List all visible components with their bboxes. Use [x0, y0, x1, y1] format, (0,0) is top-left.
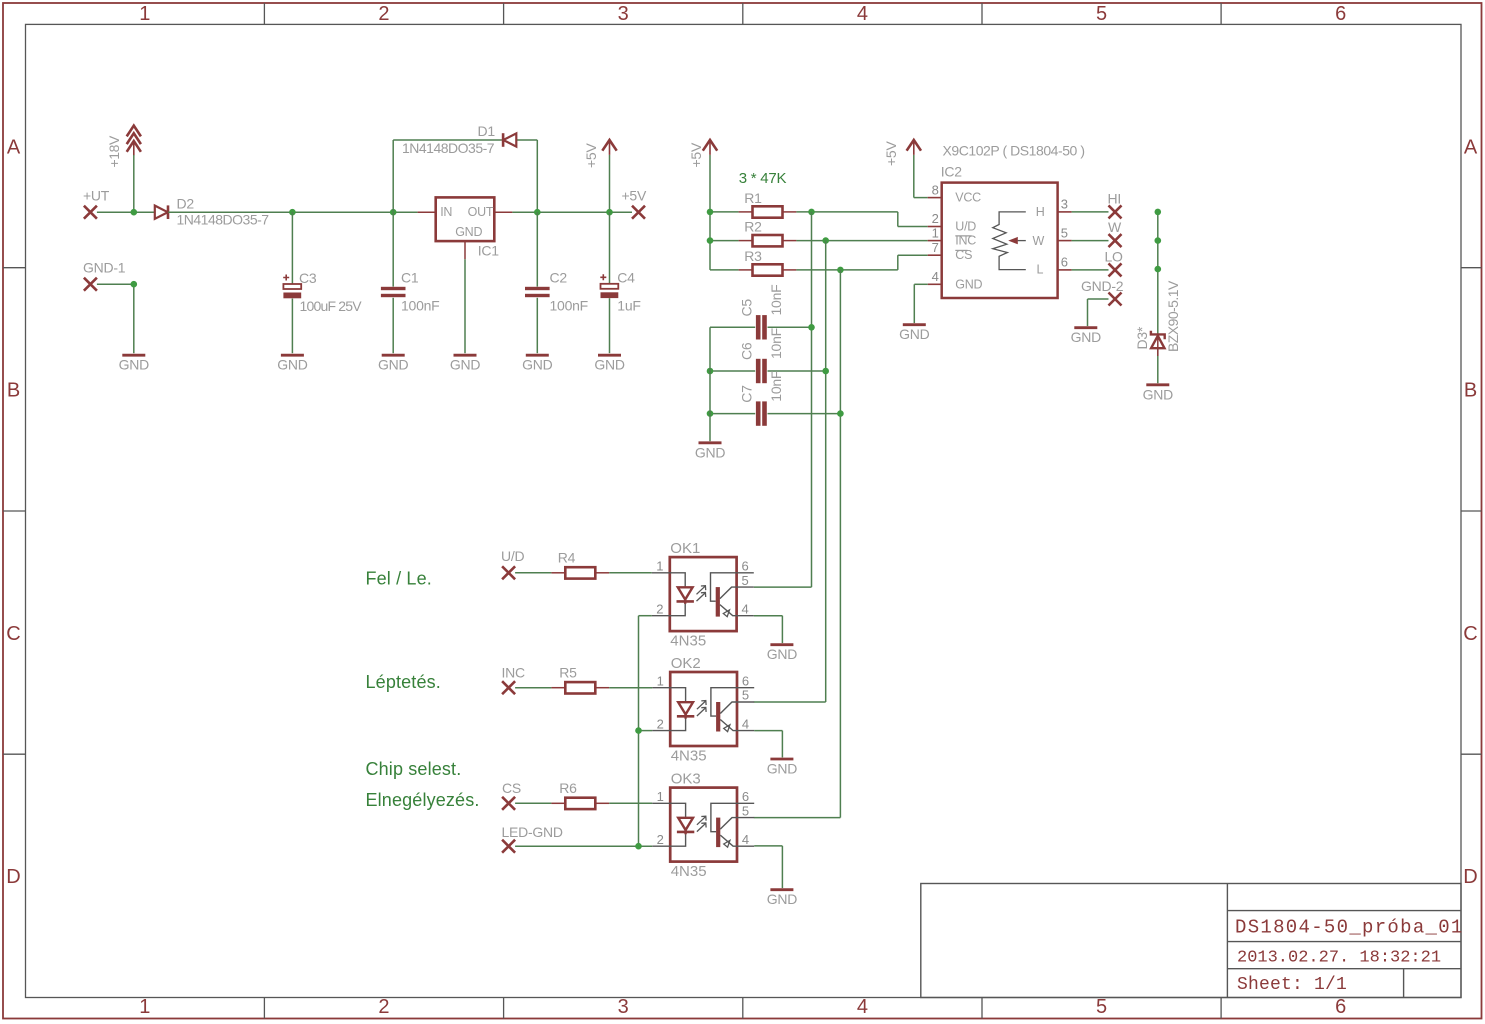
capacitor C3 100uF 25V — [283, 270, 362, 314]
svg-text:Sheet: 1/1: Sheet: 1/1 — [1237, 975, 1347, 995]
svg-text:GND: GND — [119, 357, 150, 373]
svg-text:X9C102P ( DS1804-50 ): X9C102P ( DS1804-50 ) — [943, 143, 1085, 159]
value label 3 * 47K — [739, 170, 787, 187]
junction rail L — [1155, 266, 1162, 273]
wire +18V drop — [133, 155, 135, 212]
svg-text:1: 1 — [932, 225, 939, 240]
wire C3 leads — [291, 212, 293, 353]
wire OK1 pin4 to ground — [754, 616, 783, 643]
diode D2 1N4148DO35-7 — [155, 196, 269, 228]
wire INC to R5 — [515, 687, 551, 689]
svg-text:C: C — [6, 623, 20, 645]
svg-text:GND: GND — [767, 891, 798, 907]
title block date — [1237, 949, 1441, 968]
svg-text:C6: C6 — [739, 342, 755, 360]
svg-text:OK2: OK2 — [671, 655, 701, 672]
svg-text:IN: IN — [440, 205, 452, 219]
capacitor C1 100nF — [381, 270, 440, 314]
ground OK2 — [767, 759, 798, 777]
svg-text:8: 8 — [932, 182, 939, 197]
label Elnegelyezes. — [366, 790, 480, 810]
capacitor C2 100nF — [525, 270, 588, 314]
svg-text:D3*: D3* — [1134, 326, 1150, 349]
capacitor C4 1uF — [600, 270, 640, 314]
svg-text:IC2: IC2 — [941, 164, 963, 180]
svg-text:4N35: 4N35 — [670, 632, 706, 649]
svg-text:GND: GND — [594, 357, 625, 373]
junction R2 right — [822, 237, 829, 244]
wire GND-2 — [1088, 299, 1109, 326]
svg-text:L: L — [1037, 263, 1044, 277]
svg-text:OK1: OK1 — [670, 540, 700, 557]
svg-text:10nF: 10nF — [768, 328, 784, 359]
wire IC2 pin4 GND — [914, 284, 927, 323]
zener D3 BZX90-5.1V — [1134, 280, 1181, 356]
svg-text:4: 4 — [932, 269, 939, 284]
svg-text:C2: C2 — [550, 270, 568, 286]
wire CS column — [754, 270, 841, 818]
wire R2 to IC2 pin1 — [796, 240, 927, 242]
ground GND-2 — [1071, 328, 1102, 346]
resistor R5 — [551, 665, 609, 694]
svg-text:D1: D1 — [478, 123, 496, 139]
svg-text:6: 6 — [742, 789, 749, 804]
svg-text:1: 1 — [657, 673, 664, 688]
svg-text:CS: CS — [502, 780, 521, 796]
wire OK1 pin2 down — [639, 616, 652, 847]
regulator IC1 — [418, 197, 513, 259]
svg-text:GND: GND — [450, 357, 481, 373]
wire R6 to OK3 — [609, 802, 652, 804]
wire R1 to IC2 pin2 — [796, 212, 927, 227]
wire R3 to IC2 pin7 — [796, 255, 927, 270]
wire C1 leads — [392, 212, 394, 353]
ground C1 — [378, 355, 409, 373]
svg-text:1: 1 — [657, 789, 664, 804]
svg-text:C5: C5 — [739, 299, 755, 317]
svg-text:R3: R3 — [744, 248, 762, 264]
svg-text:A: A — [1464, 136, 1478, 158]
optocoupler OK3 4N35 — [652, 771, 754, 880]
svg-text:GND: GND — [522, 357, 553, 373]
wire LED-GND to OK3 pin2 — [515, 845, 652, 847]
svg-text:LO: LO — [1105, 248, 1124, 264]
ground IC1 — [450, 355, 481, 373]
svg-text:100uF 25V: 100uF 25V — [300, 298, 363, 314]
svg-text:6: 6 — [1335, 996, 1346, 1018]
svg-text:GND: GND — [1071, 329, 1102, 345]
wire C7 row — [710, 413, 840, 415]
wire IC1 GND pin — [464, 259, 466, 353]
svg-text:100nF: 100nF — [401, 298, 439, 314]
svg-text:2013.02.27. 18:32:21: 2013.02.27. 18:32:21 — [1237, 949, 1441, 968]
svg-text:GND: GND — [378, 357, 409, 373]
wire GND-1 — [97, 284, 134, 353]
svg-text:+5V: +5V — [688, 142, 704, 167]
ground D3 — [1143, 385, 1174, 403]
junction C3 tap — [289, 209, 296, 216]
svg-text:GND-2: GND-2 — [1081, 278, 1124, 294]
ground C2 — [522, 355, 553, 373]
ground OK3 — [767, 890, 798, 908]
svg-text:W: W — [1108, 219, 1122, 235]
junction rail W — [1155, 237, 1162, 244]
resistor R2 — [739, 219, 797, 247]
wire R5 to OK2 — [609, 687, 652, 689]
wire IC2 pin6 L — [1072, 269, 1109, 271]
supply symbol +18V — [106, 126, 141, 168]
svg-text:1: 1 — [139, 3, 150, 25]
svg-text:+5V: +5V — [583, 143, 599, 168]
svg-text:4N35: 4N35 — [671, 747, 707, 764]
svg-text:Chip selest.: Chip selest. — [366, 759, 462, 779]
title block box — [921, 884, 1461, 998]
resistor R4 — [551, 550, 609, 579]
supply symbol +5V at R1-R3 — [688, 140, 717, 168]
wire C5 row — [710, 326, 812, 328]
svg-text:5: 5 — [742, 803, 749, 818]
label Leptetes — [366, 672, 441, 692]
node LO terminal — [1105, 248, 1124, 276]
svg-text:Elnegélyezés.: Elnegélyezés. — [366, 790, 480, 810]
svg-text:100nF: 100nF — [550, 298, 588, 314]
svg-text:6: 6 — [742, 559, 749, 574]
svg-text:C: C — [1463, 623, 1477, 645]
svg-text:IC1: IC1 — [478, 242, 500, 258]
svg-text:5: 5 — [1096, 996, 1107, 1018]
supply symbol +5V at C4 — [583, 140, 617, 168]
wire R4 to OK1 — [609, 572, 652, 574]
junction LED-GND — [635, 843, 642, 850]
node +UT terminal — [83, 188, 110, 219]
svg-text:5: 5 — [742, 573, 749, 588]
wire C6 row — [710, 370, 826, 372]
wire C2 leads — [536, 212, 538, 353]
svg-text:HI: HI — [1108, 190, 1122, 206]
svg-text:GND: GND — [899, 326, 930, 342]
svg-text:OUT: OUT — [468, 205, 494, 219]
svg-text:D: D — [6, 866, 20, 888]
svg-text:4: 4 — [857, 3, 868, 25]
node HI terminal — [1108, 190, 1122, 218]
svg-text:+UT: +UT — [83, 188, 110, 204]
wire C4 leads — [609, 212, 611, 353]
svg-text:Fel / Le.: Fel / Le. — [366, 569, 432, 589]
ground C4 — [594, 355, 625, 373]
svg-text:10nF: 10nF — [768, 371, 784, 402]
title block drawing name — [1235, 917, 1464, 939]
wire IC2 pin5 W — [1072, 240, 1109, 242]
svg-text:4: 4 — [857, 996, 868, 1018]
svg-text:4N35: 4N35 — [671, 863, 707, 880]
resistor R3 — [739, 248, 797, 275]
potentiometer symbol inside IC2 — [993, 212, 1026, 270]
svg-text:U/D: U/D — [955, 219, 976, 233]
optocoupler OK1 4N35 — [652, 540, 754, 649]
svg-text:U/D: U/D — [501, 548, 525, 564]
svg-text:1uF: 1uF — [617, 298, 640, 314]
svg-text:6: 6 — [1335, 3, 1346, 25]
svg-text:OK3: OK3 — [671, 771, 701, 788]
svg-text:2: 2 — [657, 716, 664, 731]
junction OK2 pin2 — [635, 727, 652, 734]
svg-text:1: 1 — [656, 559, 663, 574]
capacitor C7 10nF — [739, 371, 785, 426]
svg-text:GND: GND — [277, 357, 308, 373]
ic X9C102P IC2 — [928, 143, 1085, 299]
junction R3 right — [837, 267, 844, 274]
svg-text:DS1804-50_próba_01: DS1804-50_próba_01 — [1235, 917, 1464, 939]
svg-text:GND: GND — [767, 761, 798, 777]
capacitor C6 10nF — [739, 328, 785, 383]
node W terminal — [1108, 219, 1122, 247]
wire IC1 OUT rail — [512, 211, 632, 213]
optocoupler OK2 4N35 — [652, 655, 754, 764]
junction C6 left — [707, 368, 714, 375]
svg-text:7: 7 — [932, 240, 939, 255]
svg-text:GND: GND — [455, 225, 482, 239]
junction C6 right — [822, 368, 829, 375]
label Chip selest. — [366, 759, 462, 779]
svg-text:R5: R5 — [559, 665, 577, 681]
resistor R1 — [739, 190, 797, 218]
svg-text:3: 3 — [1061, 197, 1068, 212]
node CS terminal — [502, 780, 521, 810]
svg-text:3: 3 — [618, 3, 629, 25]
svg-text:C3: C3 — [299, 270, 317, 286]
ground C5-C7 — [695, 443, 726, 461]
svg-text:GND-1: GND-1 — [83, 260, 126, 276]
svg-text:D: D — [1463, 866, 1477, 888]
ground IC2 — [899, 325, 930, 343]
junction C4 tap — [606, 209, 613, 216]
svg-text:3 * 47K: 3 * 47K — [739, 170, 787, 187]
junction C5 right — [808, 324, 815, 331]
junction C7 right — [837, 410, 844, 417]
junction C1/D1 tap — [390, 209, 397, 216]
column numbers top — [139, 3, 1346, 25]
svg-text:R4: R4 — [558, 550, 576, 566]
ground GND-1 — [119, 355, 150, 373]
wire OK2 pin4 to ground — [754, 731, 782, 758]
node +5V terminal — [622, 187, 647, 218]
wire CS to R6 — [515, 802, 551, 804]
ground OK1 — [767, 645, 798, 663]
svg-text:B: B — [1464, 380, 1477, 402]
wire U/D column — [754, 212, 812, 587]
svg-text:4: 4 — [742, 832, 749, 847]
svg-text:1N4148DO35-7: 1N4148DO35-7 — [177, 212, 270, 228]
svg-text:2: 2 — [378, 996, 389, 1018]
svg-text:3: 3 — [618, 996, 629, 1018]
wire +5V to IC2 pin8 — [914, 155, 928, 198]
wire INC column — [754, 241, 826, 702]
junction GND-1 — [131, 281, 138, 288]
node LED-GND terminal — [502, 824, 563, 853]
resistor R6 — [551, 780, 609, 809]
svg-text:D2: D2 — [177, 196, 195, 212]
svg-text:C7: C7 — [739, 385, 755, 403]
wire cap ground rail — [709, 327, 711, 441]
node GND-2 terminal — [1081, 278, 1124, 305]
svg-text:H: H — [1036, 205, 1045, 219]
svg-text:2: 2 — [656, 601, 663, 616]
wire +UT to D2 — [97, 211, 155, 213]
svg-text:GND: GND — [695, 444, 726, 460]
svg-text:+5V: +5V — [622, 187, 647, 203]
svg-text:GND: GND — [955, 277, 982, 291]
svg-text:GND: GND — [1143, 386, 1174, 402]
column numbers bottom — [139, 996, 1346, 1018]
svg-text:5: 5 — [1096, 3, 1107, 25]
svg-text:W: W — [1033, 234, 1045, 248]
junction +UT/+18V — [131, 209, 138, 216]
svg-text:4: 4 — [742, 716, 749, 731]
svg-text:R1: R1 — [744, 190, 762, 206]
svg-text:R2: R2 — [744, 219, 762, 235]
svg-text:GND: GND — [767, 646, 798, 662]
svg-text:C4: C4 — [617, 270, 635, 286]
title block sheet — [1237, 975, 1347, 995]
junction rail H — [1155, 209, 1162, 216]
capacitor C5 10nF — [739, 285, 785, 340]
svg-text:5: 5 — [742, 688, 749, 703]
svg-text:B: B — [7, 380, 20, 402]
svg-text:6: 6 — [742, 673, 749, 688]
label Fel / Le. — [366, 569, 432, 589]
junction R1 left — [707, 209, 714, 216]
svg-text:INC: INC — [502, 664, 526, 680]
svg-text:VCC: VCC — [955, 191, 981, 205]
row letters left — [6, 136, 21, 888]
svg-text:BZX90-5.1V: BZX90-5.1V — [1165, 280, 1181, 352]
svg-text:+5V: +5V — [883, 141, 899, 166]
wire D1 bypass loop — [393, 140, 537, 212]
wire HWL sense rail — [1157, 212, 1159, 383]
node INC terminal — [502, 664, 526, 694]
svg-text:LED-GND: LED-GND — [502, 824, 563, 840]
svg-text:5: 5 — [1061, 225, 1068, 240]
node U/D terminal — [501, 548, 525, 579]
svg-text:2: 2 — [932, 211, 939, 226]
svg-text:2: 2 — [378, 3, 389, 25]
svg-text:+18V: +18V — [106, 135, 122, 168]
ground C3 — [277, 355, 308, 373]
wire D2 to IC1 IN — [168, 211, 417, 213]
wire +5V rail to R3 — [710, 155, 739, 270]
svg-text:A: A — [7, 136, 21, 158]
svg-text:1: 1 — [139, 996, 150, 1018]
wire IC2 pin3 H — [1072, 211, 1109, 213]
svg-text:Léptetés.: Léptetés. — [366, 672, 441, 692]
svg-text:2: 2 — [657, 832, 664, 847]
junction C2 tap — [534, 209, 541, 216]
wire OK3 pin4 to ground — [754, 846, 782, 888]
wire U/D to R4 — [515, 572, 551, 574]
svg-text:4: 4 — [742, 601, 749, 616]
junction C7 left — [707, 410, 714, 417]
svg-text:1N4148DO35-7: 1N4148DO35-7 — [402, 140, 495, 156]
svg-text:6: 6 — [1061, 255, 1068, 270]
junction R2 left — [707, 237, 714, 244]
supply symbol +5V at IC2 — [883, 140, 921, 166]
row letters right — [1463, 136, 1478, 888]
svg-text:10nF: 10nF — [768, 285, 784, 316]
svg-text:R6: R6 — [559, 780, 577, 796]
wire +5V drop to rail — [609, 155, 611, 212]
node GND-1 terminal — [83, 260, 126, 291]
junction R1 right — [808, 209, 815, 216]
diode D1 1N4148DO35-7 — [402, 123, 516, 156]
svg-text:C1: C1 — [401, 270, 419, 286]
